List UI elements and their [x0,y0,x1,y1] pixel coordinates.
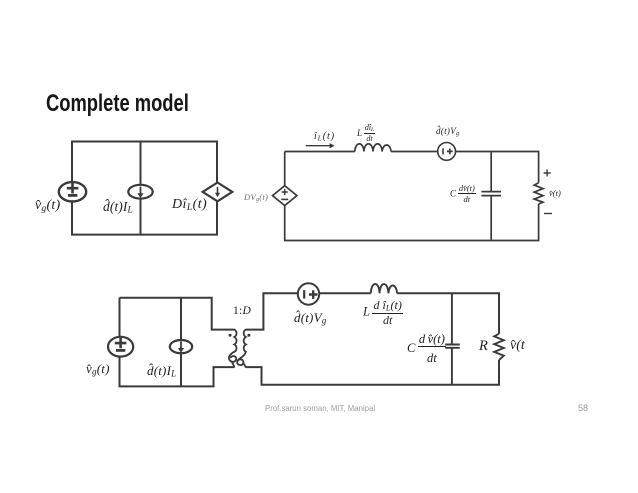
current source d̂(t)IL top-left [128,185,152,199]
wire middle branch bottom-left loop [180,298,182,387]
current source d̂(t)IL bottom-left [170,340,192,353]
independent source circle d̂(t)Vg bottom [298,283,319,304]
current arrow îL(t) top-right [306,143,335,148]
voltage source v̂g(t) top-left [59,182,86,201]
label îL(t) arrow top-right [314,132,335,142]
footer credit [265,404,375,413]
label v̂(t bottom [510,339,525,353]
transformer secondary coil [237,330,246,367]
transformer primary coil 1:D [229,330,237,367]
inductor L top-right [355,144,391,152]
label DîL(t) top-left [172,198,207,213]
plus mark at resistor top-right [544,170,551,177]
independent source circle d̂(t)Vg top-right [438,143,456,161]
wire bottom main loop [246,293,499,385]
resistor R top-right [534,183,543,204]
label R bottom [479,339,488,354]
label 1:D transformer [233,306,251,318]
minus mark at resistor top-right [544,213,552,215]
transformer dot primary [229,334,232,337]
label v̂g(t) bottom-left [86,362,110,377]
label d̂(t)IL bottom-left [147,364,176,379]
label DVg(t) top-right diamond [244,193,268,204]
wire middle branch top-left loop [140,142,142,235]
transformer dot secondary [247,334,250,337]
dependent voltage source diamond DVg(t) top-right [273,186,297,206]
capacitor C top-right [481,152,501,241]
capacitor C bottom [445,293,460,385]
footer page number [578,403,588,413]
label d̂(t)Vg bottom [294,311,326,326]
label L dîL/dt top-right [357,124,375,144]
label C dv̂(t)/dt bottom [407,333,446,365]
dependent source diamond DîL(t) top-left [203,183,233,202]
resistor R bottom [494,334,504,360]
voltage source v̂g(t) bottom-left [108,337,133,357]
wire top-left loop rectangle [72,142,217,235]
label v̂(t) top-right [549,189,561,198]
label C dv̂(t)/dt top-right [450,184,476,205]
inductor L bottom [371,284,397,293]
label d̂(t)IL top-left [103,200,133,216]
label d̂(t)Vg top-right [436,127,459,137]
wire top-right circuit outline [285,152,539,241]
label L dîL(t)/dt bottom [363,299,403,326]
title Complete model [46,90,189,118]
label v̂g(t) top-left [35,199,60,214]
wire bottom-left loop [120,298,235,387]
